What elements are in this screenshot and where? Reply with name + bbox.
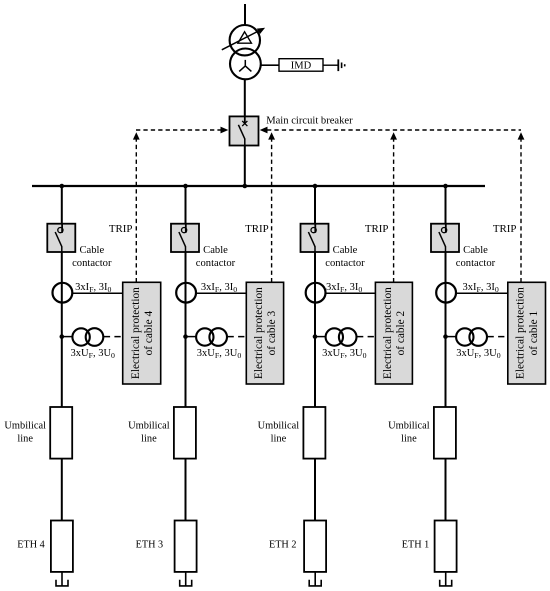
svg-text:contactor: contactor <box>72 258 112 269</box>
svg-text:ETH 1: ETH 1 <box>402 539 429 550</box>
wire (dashed) VT to protection box 1 <box>488 336 508 338</box>
wire transformer to IMD <box>261 64 279 66</box>
wire umbilical to ETH 3 <box>185 459 187 521</box>
wire (dashed) VT to protection box 4 <box>104 336 123 338</box>
IMD box U-IMD <box>279 59 323 72</box>
svg-text:TRIP: TRIP <box>245 223 269 235</box>
current transformer CT4 <box>53 283 73 303</box>
umbilical line impedance 4 <box>50 407 72 459</box>
svg-text:of cable 2: of cable 2 <box>395 310 407 355</box>
cable contactor K4 <box>47 224 75 252</box>
svg-text:ETH 2: ETH 2 <box>269 539 296 550</box>
node breaker-bus junction <box>243 184 248 189</box>
node bus tap cable 3 <box>183 184 188 189</box>
svg-text:Cable: Cable <box>333 245 358 256</box>
ground (IMD earth) <box>338 59 344 71</box>
svg-text:3xIF, 3I0: 3xIF, 3I0 <box>463 282 499 294</box>
svg-text:Umbilical: Umbilical <box>258 421 300 432</box>
wire contactor down through CT to umbilical 2 <box>314 252 316 407</box>
svg-text:Electrical protection: Electrical protection <box>130 287 142 379</box>
wire ETH to earth 2 <box>314 572 316 586</box>
electrical protection relay box cable 2 <box>375 282 412 384</box>
svg-text:Main circuit breaker: Main circuit breaker <box>266 115 353 126</box>
svg-text:3xIF, 3I0: 3xIF, 3I0 <box>75 282 111 294</box>
transformer T1 winding 1 (delta with tap arrow) <box>222 25 265 55</box>
wire bus to contactor 2 <box>314 186 316 224</box>
electrical protection relay box cable 4 <box>123 282 161 384</box>
main circuit breaker Q0 <box>230 116 259 145</box>
cable contactor K3 <box>171 224 199 252</box>
umbilical line impedance 3 <box>174 407 196 459</box>
svg-text:Umbilical: Umbilical <box>128 421 170 432</box>
TRIP dashed wire from protection box 3 up <box>271 140 273 283</box>
TRIP dashed line left segment into breaker <box>136 129 221 131</box>
svg-text:3xUF, 3U0: 3xUF, 3U0 <box>456 348 501 360</box>
svg-text:3xUF, 3U0: 3xUF, 3U0 <box>322 348 367 360</box>
svg-text:TRIP: TRIP <box>109 223 133 235</box>
node bus tap cable 2 <box>313 184 318 189</box>
svg-text:of cable 1: of cable 1 <box>528 311 540 356</box>
ETH 4 impedance box <box>51 521 73 572</box>
wire ETH to earth 3 <box>185 572 187 586</box>
svg-text:line: line <box>271 434 287 445</box>
svg-text:TRIP: TRIP <box>493 223 517 235</box>
svg-text:line: line <box>141 434 157 445</box>
wire tap to VT 4 <box>62 336 73 338</box>
svg-text:line: line <box>17 434 33 445</box>
svg-text:line: line <box>401 434 417 445</box>
wire breaker to bus <box>244 146 246 187</box>
wire IMD to ground <box>323 64 338 66</box>
svg-text:Cable: Cable <box>463 245 488 256</box>
TRIP dashed wire from protection box 1 up <box>520 140 522 283</box>
svg-text:IMD: IMD <box>291 61 312 72</box>
wire top feed <box>244 4 246 26</box>
current transformer CT1 <box>436 283 456 303</box>
current transformer CT2 <box>306 283 326 303</box>
wire CT to protection box 4 <box>72 292 122 294</box>
voltage transformer VT3 <box>196 328 227 346</box>
earth electrode symbol 4 <box>56 580 68 586</box>
svg-text:TRIP: TRIP <box>365 223 389 235</box>
wire tap to VT 1 <box>446 336 457 338</box>
svg-text:of cable 3: of cable 3 <box>266 310 278 355</box>
wire tap to VT 2 <box>315 336 326 338</box>
svg-text:ETH 3: ETH 3 <box>136 539 163 550</box>
svg-text:Electrical protection: Electrical protection <box>253 287 265 379</box>
ETH 1 impedance box <box>435 521 457 572</box>
node VT tap 2 <box>313 334 318 339</box>
umbilical line impedance 2 <box>303 407 325 459</box>
cable contactor K1 <box>431 224 459 252</box>
voltage transformer VT4 <box>72 328 103 346</box>
svg-text:contactor: contactor <box>456 258 496 269</box>
svg-text:Umbilical: Umbilical <box>4 421 46 432</box>
svg-text:Cable: Cable <box>203 245 228 256</box>
electrical protection relay box cable 1 <box>508 282 546 384</box>
node VT tap 1 <box>443 334 448 339</box>
svg-text:ETH 4: ETH 4 <box>17 539 44 550</box>
wire CT to protection box 1 <box>456 292 508 294</box>
transformer T1 winding 2 (wye) <box>230 49 261 80</box>
wire bus to contactor 1 <box>445 186 447 224</box>
node VT tap 3 <box>183 334 188 339</box>
wire umbilical to ETH 4 <box>61 459 63 521</box>
svg-text:Electrical protection: Electrical protection <box>515 287 527 379</box>
electrical protection relay box cable 3 <box>246 282 283 384</box>
wire (dashed) VT to protection box 2 <box>357 336 375 338</box>
wire contactor down through CT to umbilical 1 <box>445 252 447 407</box>
node bus tap cable 4 <box>60 184 65 189</box>
wire bus to contactor 4 <box>61 186 63 224</box>
svg-text:3xUF, 3U0: 3xUF, 3U0 <box>197 348 242 360</box>
wire CT to protection box 2 <box>326 292 376 294</box>
svg-text:Umbilical: Umbilical <box>388 421 430 432</box>
wire (dashed) VT to protection box 3 <box>228 336 247 338</box>
umbilical line impedance 1 <box>434 407 456 459</box>
wire tap to VT 3 <box>186 336 197 338</box>
ETH 2 impedance box <box>304 521 326 572</box>
cable contactor K2 <box>301 224 329 252</box>
TRIP dashed line right segment into breaker <box>267 129 521 131</box>
voltage transformer VT2 <box>326 328 357 346</box>
node bus tap cable 1 <box>443 184 448 189</box>
earth electrode symbol 2 <box>309 580 321 586</box>
node VT tap 4 <box>60 334 65 339</box>
TRIP dashed wire from protection box 2 up <box>393 140 395 283</box>
svg-text:3xUF, 3U0: 3xUF, 3U0 <box>71 348 116 360</box>
svg-text:3xIF, 3I0: 3xIF, 3I0 <box>326 282 362 294</box>
earth electrode symbol 3 <box>180 580 192 586</box>
svg-text:Electrical protection: Electrical protection <box>382 287 394 379</box>
svg-text:Cable: Cable <box>79 245 104 256</box>
wire umbilical to ETH 2 <box>314 459 316 521</box>
wire ETH to earth 4 <box>61 572 63 586</box>
svg-text:of cable 4: of cable 4 <box>143 310 155 355</box>
wire CT to protection box 3 <box>196 292 246 294</box>
svg-text:contactor: contactor <box>325 258 365 269</box>
TRIP dashed wire from protection box 4 up <box>135 140 137 283</box>
wire bus to contactor 3 <box>185 186 187 224</box>
wire umbilical to ETH 1 <box>445 459 447 521</box>
svg-text:contactor: contactor <box>196 258 236 269</box>
bus bar <box>32 185 485 187</box>
wire contactor down through CT to umbilical 3 <box>185 252 187 407</box>
ETH 3 impedance box <box>175 521 197 572</box>
wire transformer to main breaker <box>244 79 246 117</box>
svg-text:3xIF, 3I0: 3xIF, 3I0 <box>201 282 237 294</box>
wire ETH to earth 1 <box>445 572 447 586</box>
wire contactor down through CT to umbilical 4 <box>61 252 63 407</box>
current transformer CT3 <box>176 283 196 303</box>
earth electrode symbol 1 <box>440 580 452 586</box>
voltage transformer VT1 <box>456 328 487 346</box>
